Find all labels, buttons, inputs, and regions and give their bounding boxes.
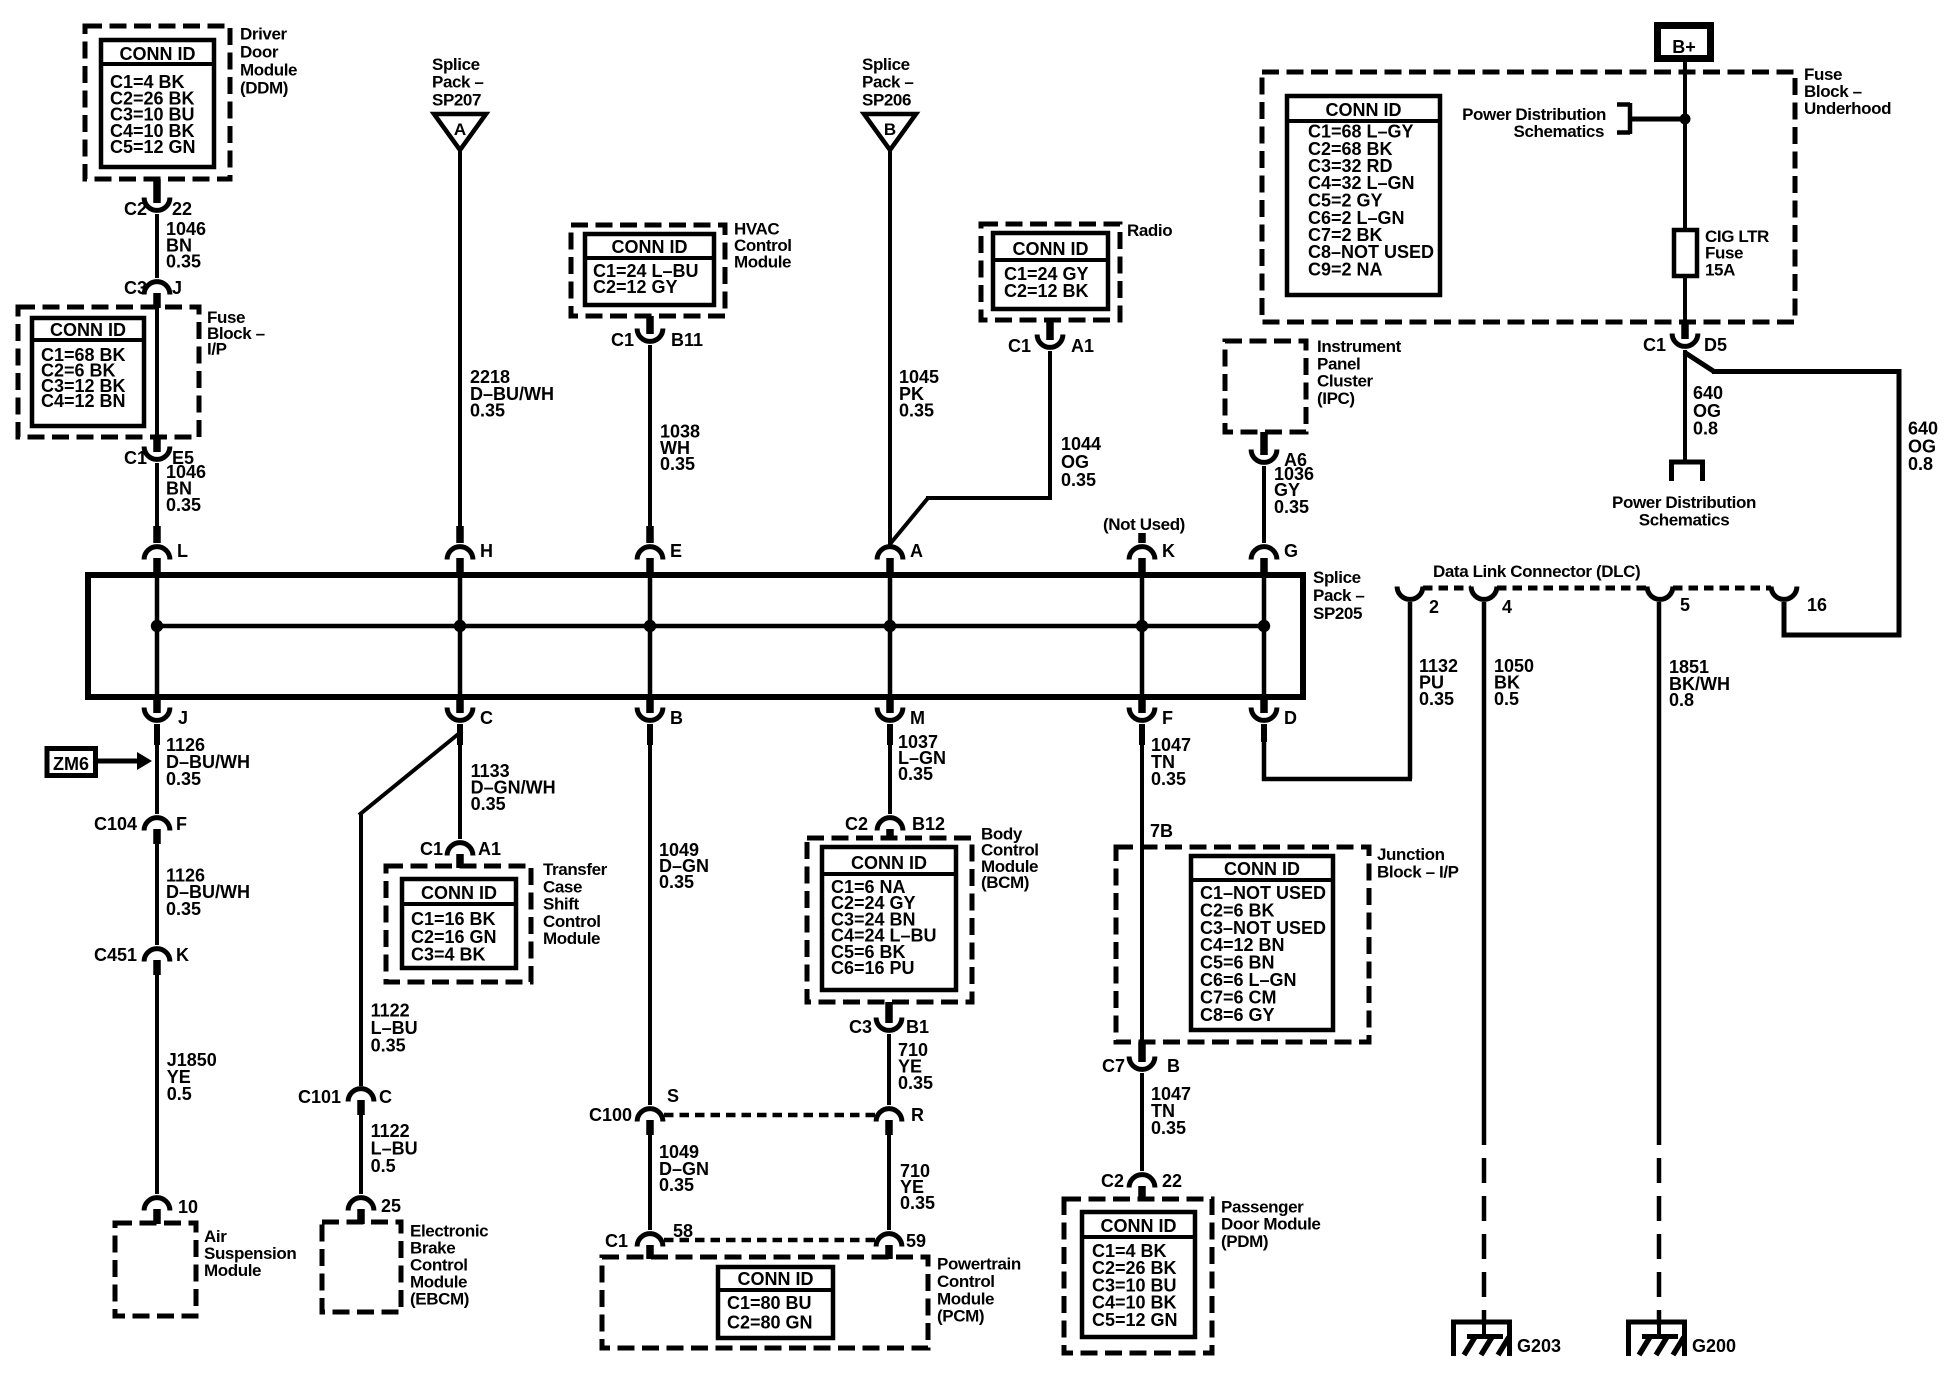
svg-text:Block – I/P: Block – I/P — [1377, 862, 1459, 881]
svg-text:0.8: 0.8 — [1908, 454, 1933, 474]
svg-text:Junction: Junction — [1377, 845, 1445, 864]
svg-text:1044: 1044 — [1061, 434, 1101, 454]
wire 710 YE 0.35 (R to PCM pin 59) — [889, 1135, 935, 1230]
svg-text:(DDM): (DDM) — [240, 79, 288, 98]
connector C100 pin S — [589, 1086, 679, 1135]
splice pack SP205 internal bus wire — [157, 575, 1264, 697]
dashed connector line 58 to 59 — [664, 1238, 877, 1243]
connector DLC pin 16 — [1771, 587, 1827, 616]
module Fuse Block - Underhood — [1262, 65, 1891, 322]
label 7B — [1150, 821, 1173, 841]
svg-text:Case: Case — [543, 877, 582, 896]
svg-text:C1: C1 — [605, 1231, 628, 1251]
svg-text:15A: 15A — [1705, 261, 1735, 280]
svg-text:G: G — [1284, 541, 1298, 561]
svg-text:D: D — [1284, 708, 1297, 728]
svg-text:J: J — [178, 708, 188, 728]
svg-text:Door: Door — [240, 43, 279, 62]
wire 1047 TN 0.35 (F to Junction Block) — [1142, 724, 1191, 847]
svg-text:H: H — [480, 541, 493, 561]
connector C2 pin 22 (PDM) — [1101, 1171, 1182, 1200]
svg-text:(PCM): (PCM) — [937, 1307, 984, 1326]
connector H (splice pack SP205) — [447, 526, 493, 574]
wire 2218 D-BU/WH 0.35 (SP207 to splice pack H) — [460, 150, 554, 528]
svg-text:0.35: 0.35 — [900, 1193, 935, 1213]
connector E (splice pack SP205) — [637, 526, 682, 574]
data link connector dashed bus — [1423, 586, 1771, 591]
module PDM (Passenger Door Module) — [1064, 1197, 1320, 1353]
svg-text:0.35: 0.35 — [660, 454, 695, 474]
svg-text:Schematics: Schematics — [1514, 122, 1605, 141]
svg-text:22: 22 — [1162, 1171, 1182, 1191]
svg-text:A: A — [910, 541, 923, 561]
svg-text:(IPC): (IPC) — [1317, 389, 1355, 408]
svg-text:B: B — [1167, 1056, 1180, 1076]
wire 1122 L-BU 0.35 (C to C101) — [359, 724, 462, 1086]
svg-text:ZM6: ZM6 — [53, 754, 89, 774]
svg-text:Cluster: Cluster — [1317, 372, 1374, 391]
svg-text:Transfer: Transfer — [543, 860, 608, 879]
svg-text:CONN ID: CONN ID — [612, 237, 688, 257]
svg-text:Pack –: Pack – — [862, 73, 913, 92]
svg-text:Module: Module — [937, 1289, 994, 1308]
svg-text:C7: C7 — [1102, 1056, 1125, 1076]
svg-text:59: 59 — [906, 1231, 926, 1251]
wire 1133 D-GN/WH 0.35 (C to Transfer Case) — [460, 724, 556, 839]
connector C1 pin B11 (HVAC) — [611, 316, 703, 350]
module Air Suspension Module — [115, 1223, 296, 1316]
splice pack SP207 triangle A — [432, 55, 486, 150]
svg-text:J: J — [172, 278, 182, 298]
connector L (splice pack SP205) — [144, 526, 188, 574]
svg-text:A1: A1 — [478, 839, 501, 859]
junction dot node H — [454, 620, 466, 632]
svg-text:25: 25 — [381, 1196, 401, 1216]
svg-text:SP207: SP207 — [432, 90, 481, 109]
connector C104 pin F — [94, 814, 187, 844]
svg-text:0.5: 0.5 — [167, 1084, 192, 1104]
connector C1 pin A1 (Radio) — [1008, 320, 1094, 356]
svg-text:C451: C451 — [94, 945, 137, 965]
connector B (splice pack SP205 bottom) — [637, 697, 683, 745]
connector C7 pin B (Junction Block bottom) — [1102, 1042, 1180, 1076]
svg-text:CONN ID: CONN ID — [421, 883, 497, 903]
connector DLC pin 2 — [1397, 587, 1439, 618]
wire 1047 TN 0.35 (Junction Block to PDM) — [1142, 1073, 1191, 1171]
wire fuse to connector C1 D5 — [1683, 276, 1687, 339]
svg-text:C1: C1 — [611, 330, 634, 350]
connector C1 pin A1 (Transfer Case Shift Control Module) — [420, 839, 501, 868]
svg-text:Pack –: Pack – — [1313, 586, 1364, 605]
svg-text:R: R — [911, 1105, 924, 1125]
svg-text:0.35: 0.35 — [471, 794, 506, 814]
svg-text:C2=12 BK: C2=12 BK — [1004, 281, 1089, 301]
connector pin 10 (Air Suspension Module) — [144, 1197, 198, 1224]
label Power Distribution Schematics (top) with bracket — [1462, 103, 1685, 141]
junction dot node K — [1136, 620, 1148, 632]
svg-text:640: 640 — [1693, 383, 1723, 403]
connector C3 pin J (Fuse Block I/P top) — [124, 278, 182, 308]
splice pack SP206 triangle B — [862, 55, 916, 150]
wire 1049 D-GN 0.35 (C100 to PCM pin 58) — [650, 1135, 709, 1230]
svg-text:Powertrain: Powertrain — [937, 1255, 1021, 1274]
svg-text:0.35: 0.35 — [371, 1036, 406, 1056]
svg-text:0.8: 0.8 — [1693, 419, 1718, 439]
svg-text:OG: OG — [1061, 452, 1089, 472]
svg-text:Module: Module — [240, 61, 297, 80]
svg-text:C9=2 NA: C9=2 NA — [1308, 260, 1383, 280]
svg-text:0.35: 0.35 — [1274, 497, 1309, 517]
wire 1126 D-BU/WH 0.35 (J to C104) — [157, 724, 250, 814]
junction dot B+ distribution — [1680, 114, 1691, 125]
svg-text:C1: C1 — [124, 448, 147, 468]
svg-text:(Not Used): (Not Used) — [1103, 515, 1185, 534]
svg-text:CONN ID: CONN ID — [851, 853, 927, 873]
svg-text:Radio: Radio — [1127, 221, 1172, 240]
svg-text:G203: G203 — [1517, 1336, 1561, 1356]
connector J (splice pack SP205 bottom) — [144, 697, 188, 745]
svg-text:K: K — [176, 945, 189, 965]
svg-text:G200: G200 — [1692, 1336, 1736, 1356]
svg-text:0.35: 0.35 — [1419, 689, 1454, 709]
module Radio — [981, 221, 1172, 320]
svg-text:Module: Module — [543, 929, 600, 948]
svg-text:C5=12 GN: C5=12 GN — [1092, 1310, 1178, 1330]
connector C101 pin C — [298, 1087, 392, 1115]
svg-text:C2: C2 — [845, 814, 868, 834]
svg-text:Shift: Shift — [543, 895, 580, 914]
connector C2 pin B12 (BCM) — [845, 814, 945, 840]
connector pin A6 (IPC) — [1251, 432, 1307, 470]
svg-text:0.35: 0.35 — [899, 401, 934, 421]
svg-text:B12: B12 — [912, 814, 945, 834]
svg-text:Driver: Driver — [240, 24, 288, 43]
svg-text:CONN ID: CONN ID — [1101, 1216, 1177, 1236]
svg-text:SP206: SP206 — [862, 90, 911, 109]
svg-text:C1=80 BU: C1=80 BU — [727, 1293, 812, 1313]
svg-text:CONN ID: CONN ID — [1326, 100, 1402, 120]
svg-text:C2: C2 — [124, 199, 147, 219]
module HVAC Control Module — [571, 220, 792, 317]
connector R (PCM in-line) — [876, 1105, 924, 1135]
module PCM (Powertrain Control Module) — [602, 1255, 1021, 1348]
svg-text:0.35: 0.35 — [1151, 1118, 1186, 1138]
svg-text:B: B — [670, 708, 683, 728]
svg-text:Control: Control — [937, 1272, 995, 1291]
wire 1046 BN 0.35 (Fuse Block I/P to splice pack L) — [157, 462, 206, 528]
module DDM (Driver Door Module) — [85, 24, 297, 179]
connector C1 pin 58 (PCM) — [605, 1221, 693, 1259]
svg-text:A1: A1 — [1071, 336, 1094, 356]
svg-text:F: F — [176, 814, 187, 834]
connector A (splice pack SP205) — [877, 541, 923, 574]
svg-text:S: S — [667, 1086, 679, 1106]
module EBCM (Electronic Brake Control Module) — [322, 1221, 488, 1312]
svg-text:Schematics: Schematics — [1639, 511, 1730, 530]
wire 1126 D-BU/WH 0.35 (C104 to C451) — [157, 844, 250, 945]
connector C2 pin 22 (DDM) — [124, 179, 192, 219]
connector D (splice pack SP205 bottom) — [1251, 697, 1297, 742]
svg-text:C2=80 GN: C2=80 GN — [727, 1313, 813, 1333]
svg-text:C1: C1 — [1643, 335, 1666, 355]
svg-text:Splice: Splice — [862, 55, 910, 74]
module BCM (Body Control Module) — [807, 824, 1039, 1002]
svg-text:C104: C104 — [94, 814, 137, 834]
svg-text:CONN ID: CONN ID — [738, 1269, 814, 1289]
svg-text:C: C — [379, 1087, 392, 1107]
connector C (splice pack SP205 bottom) — [447, 697, 493, 745]
label Power Distribution Schematics (bottom) with bracket — [1612, 462, 1756, 530]
svg-text:Data Link Connector (DLC): Data Link Connector (DLC) — [1433, 562, 1640, 581]
svg-text:Instrument: Instrument — [1317, 337, 1402, 356]
fuse CIG LTR 15A — [1674, 227, 1769, 280]
label ZM6 with arrow — [47, 749, 152, 776]
wire 1122 L-BU 0.5 (C101 to EBCM) — [361, 1115, 418, 1194]
svg-text:C101: C101 — [298, 1087, 341, 1107]
svg-text:Door Module: Door Module — [1221, 1215, 1320, 1234]
svg-text:7B: 7B — [1150, 821, 1173, 841]
svg-text:CONN ID: CONN ID — [50, 320, 126, 340]
wire 16 jumper below DLC pin 16 — [1782, 602, 1787, 638]
svg-text:A: A — [454, 120, 466, 139]
svg-text:C8=6 GY: C8=6 GY — [1200, 1005, 1275, 1025]
svg-text:I/P: I/P — [207, 340, 227, 359]
svg-text:CONN ID: CONN ID — [120, 44, 196, 64]
junction dot node G — [1258, 620, 1270, 632]
svg-text:(BCM): (BCM) — [981, 873, 1029, 892]
svg-text:2: 2 — [1429, 597, 1439, 617]
ground G203 — [1451, 1320, 1561, 1356]
connector M (splice pack SP205 bottom) — [877, 697, 925, 745]
connector pin 25 (EBCM) — [348, 1196, 401, 1224]
connector G (splice pack SP205) — [1251, 541, 1298, 574]
svg-text:10: 10 — [178, 1197, 198, 1217]
wire 1049 D-GN 0.35 (B to C100) — [650, 724, 709, 1105]
svg-text:0.35: 0.35 — [166, 495, 201, 515]
svg-text:C3: C3 — [849, 1017, 872, 1037]
svg-text:0.35: 0.35 — [166, 252, 201, 272]
wire 1037 L-GN 0.35 (M to BCM) — [890, 724, 946, 814]
wire through Junction Block — [1140, 847, 1144, 1042]
junction dot node L — [151, 620, 163, 632]
svg-text:(EBCM): (EBCM) — [410, 1290, 469, 1309]
connector C3 pin B1 (BCM bottom) — [849, 1002, 929, 1037]
svg-text:K: K — [1162, 541, 1175, 561]
svg-text:16: 16 — [1807, 595, 1827, 615]
svg-text:C5=12 GN: C5=12 GN — [110, 137, 196, 157]
svg-text:5: 5 — [1680, 595, 1690, 615]
svg-text:C1: C1 — [420, 839, 443, 859]
svg-text:0.35: 0.35 — [166, 899, 201, 919]
svg-text:L: L — [177, 541, 188, 561]
module Junction Block - I/P — [1116, 845, 1459, 1042]
svg-text:Passenger: Passenger — [1221, 1197, 1304, 1216]
svg-text:C2: C2 — [1101, 1171, 1124, 1191]
svg-text:0.35: 0.35 — [166, 769, 201, 789]
svg-text:0.35: 0.35 — [1061, 470, 1096, 490]
wire 1046 BN 0.35 (DDM to Fuse Block I/P) — [157, 214, 206, 278]
connector C1 pin E5 (Fuse Block I/P bottom) — [124, 437, 194, 468]
svg-text:22: 22 — [172, 199, 192, 219]
svg-text:0.8: 0.8 — [1669, 690, 1694, 710]
wire 710 YE 0.35 (BCM to connector R) — [889, 1034, 933, 1105]
svg-text:Module: Module — [734, 253, 791, 272]
splice pack SP205 box — [88, 568, 1364, 697]
svg-text:C3=4 BK: C3=4 BK — [411, 945, 486, 965]
connector C451 pin K — [94, 945, 189, 975]
svg-text:B: B — [884, 120, 896, 139]
connector C1 pin D5 (Fuse Block Underhood) — [1643, 334, 1727, 356]
svg-text:CONN ID: CONN ID — [1224, 859, 1300, 879]
svg-text:C100: C100 — [589, 1105, 632, 1125]
wire 1132 PU 0.35 (DLC pin 2 to splice pack D) — [1262, 602, 1458, 781]
svg-text:Panel: Panel — [1317, 354, 1360, 373]
svg-text:Splice: Splice — [1313, 568, 1361, 587]
svg-text:Splice: Splice — [432, 55, 480, 74]
wire B+ feed into fuse block — [1683, 59, 1687, 232]
connector DLC pin 5 — [1647, 587, 1690, 616]
junction dot node E — [644, 620, 656, 632]
svg-text:0.35: 0.35 — [470, 401, 505, 421]
svg-text:D5: D5 — [1704, 335, 1727, 355]
connector DLC pin 4 — [1471, 587, 1512, 618]
svg-text:CONN ID: CONN ID — [1013, 239, 1089, 259]
svg-text:F: F — [1162, 708, 1173, 728]
svg-text:4: 4 — [1502, 597, 1512, 617]
svg-text:Pack –: Pack – — [432, 73, 483, 92]
svg-text:M: M — [910, 708, 925, 728]
module Fuse Block - I/P — [18, 307, 265, 437]
junction dot node A — [884, 620, 896, 632]
wire J1850 YE 0.5 (C451 to Air Suspension Module) — [157, 975, 217, 1194]
power node B+ — [1658, 26, 1711, 59]
svg-text:C3: C3 — [124, 278, 147, 298]
wire 640 OG 0.8 (D5 down to power distribution) — [1685, 350, 1723, 462]
connector K not used (splice pack SP205) — [1103, 515, 1185, 574]
svg-text:0.35: 0.35 — [659, 872, 694, 892]
svg-text:B11: B11 — [671, 330, 703, 350]
wire 640 OG 0.8 (D5 branch to DLC pin 16) — [1684, 352, 1938, 638]
svg-text:0.5: 0.5 — [1494, 689, 1519, 709]
svg-text:Underhood: Underhood — [1804, 99, 1891, 118]
svg-text:C2=12 GY: C2=12 GY — [593, 277, 678, 297]
wire through Fuse Block I/P — [155, 308, 159, 437]
svg-text:E: E — [670, 541, 682, 561]
wire 1044 OG 0.35 (Radio to splice pack A) — [890, 351, 1101, 544]
svg-text:0.35: 0.35 — [898, 1073, 933, 1093]
wire 1038 WH 0.35 (HVAC to splice pack E) — [650, 345, 700, 528]
connector pin 59 (PCM) — [876, 1231, 926, 1259]
wire 1851 BK/WH 0.8 (DLC pin 5 to ground G200) — [1659, 602, 1730, 1325]
svg-text:SP205: SP205 — [1313, 604, 1362, 623]
module IPC (Instrument Panel Cluster) — [1225, 337, 1402, 432]
ground G200 — [1626, 1320, 1736, 1356]
wire 1036 GY 0.35 (IPC to splice pack G) — [1264, 464, 1314, 543]
svg-text:C4=12 BN: C4=12 BN — [41, 391, 126, 411]
wire 1050 BK 0.5 (DLC pin 4 to ground G203) — [1484, 602, 1534, 1325]
wire 1045 PK 0.35 (SP206 to splice pack A) — [890, 150, 939, 545]
svg-text:0.35: 0.35 — [659, 1175, 694, 1195]
svg-text:0.35: 0.35 — [898, 764, 933, 784]
svg-text:Power Distribution: Power Distribution — [1612, 493, 1756, 512]
svg-text:Control: Control — [543, 912, 601, 931]
connector F (splice pack SP205 bottom) — [1129, 697, 1173, 745]
svg-text:0.35: 0.35 — [1151, 769, 1186, 789]
svg-text:0.5: 0.5 — [371, 1156, 396, 1176]
dashed connector line C100 S to R — [664, 1113, 877, 1118]
svg-text:B1: B1 — [906, 1017, 929, 1037]
svg-text:(PDM): (PDM) — [1221, 1232, 1268, 1251]
svg-text:C: C — [480, 708, 493, 728]
module Transfer Case Shift Control Module — [386, 860, 608, 982]
svg-text:Module: Module — [204, 1261, 261, 1280]
svg-text:B+: B+ — [1672, 37, 1696, 57]
label Data Link Connector (DLC) — [1433, 562, 1640, 581]
svg-text:C1: C1 — [1008, 336, 1031, 356]
svg-text:C6=16 PU: C6=16 PU — [831, 958, 915, 978]
